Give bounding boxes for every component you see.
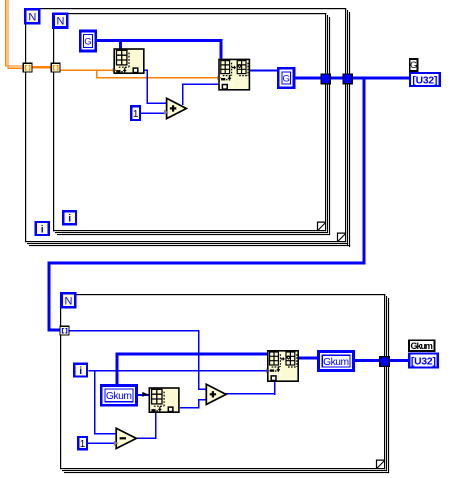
svg-text:[U32]: [U32] [412, 75, 437, 86]
svg-text:Gkum: Gkum [410, 341, 433, 351]
svg-text:1: 1 [133, 109, 139, 120]
svg-text:N: N [28, 11, 36, 23]
svg-text:[U32]: [U32] [411, 356, 436, 367]
svg-text:G: G [283, 73, 290, 84]
svg-text:1: 1 [80, 439, 86, 450]
svg-text:G: G [84, 37, 91, 48]
svg-text:N: N [57, 16, 65, 28]
svg-text:i: i [41, 223, 44, 235]
svg-text:G: G [410, 60, 417, 70]
svg-text:i: i [79, 365, 82, 377]
svg-text:N: N [65, 295, 73, 307]
svg-text:i: i [68, 213, 71, 225]
svg-text:Gkum: Gkum [106, 391, 132, 402]
svg-text:Gkum: Gkum [323, 357, 349, 368]
